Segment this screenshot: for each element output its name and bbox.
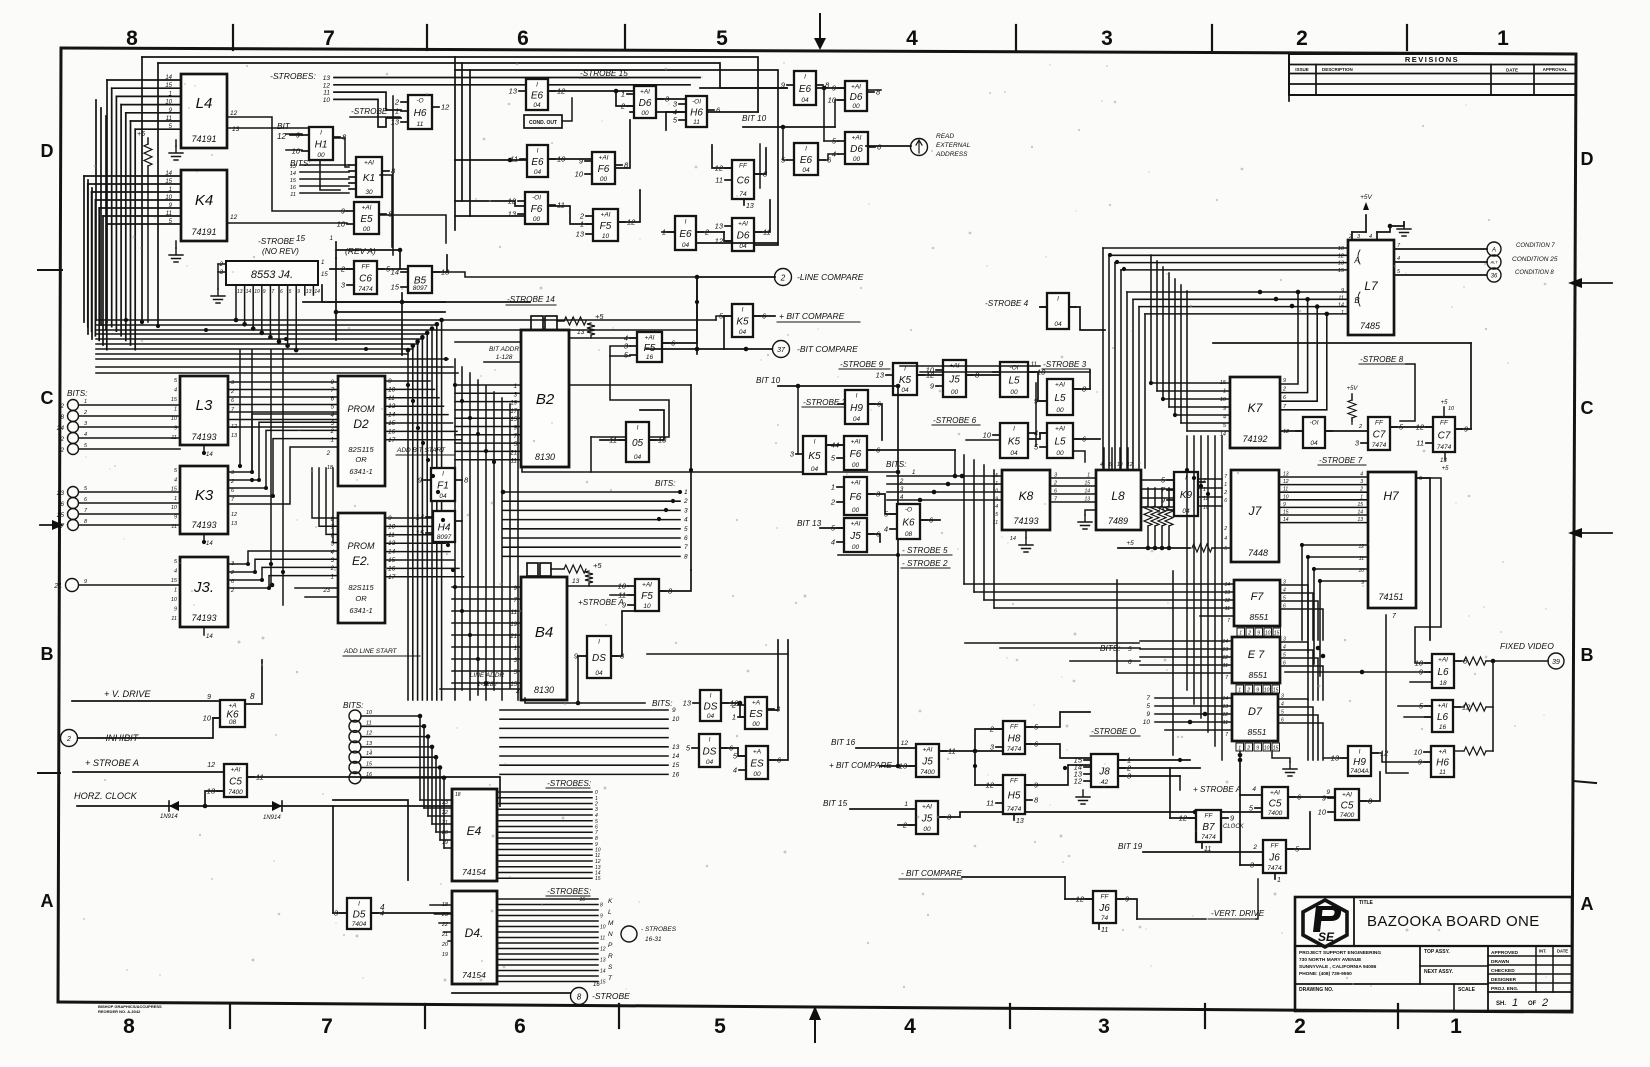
svg-text:ALT: ALT — [1489, 260, 1498, 265]
svg-text:00: 00 — [852, 103, 860, 110]
svg-text:+A: +A — [1438, 749, 1446, 756]
wire line compare to circle — [447, 272, 775, 354]
svg-text:15: 15 — [165, 83, 172, 89]
svg-text:11: 11 — [986, 799, 994, 808]
svg-text:1: 1 — [331, 574, 334, 580]
svg-text:APPROVED: APPROVED — [1491, 950, 1518, 956]
svg-text:I: I — [358, 901, 360, 908]
svg-text:C5: C5 — [1341, 801, 1354, 812]
svg-text:7400: 7400 — [1268, 810, 1283, 817]
wires E6c D6b C6b — [662, 144, 770, 241]
svg-text:REVISIONS: REVISIONS — [1405, 55, 1459, 64]
svg-text:19: 19 — [442, 840, 448, 846]
svg-text:FF: FF — [1010, 778, 1019, 785]
svg-text:-OI: -OI — [532, 195, 541, 202]
ground at K4 pin — [169, 241, 183, 262]
svg-text:K9: K9 — [1180, 490, 1193, 501]
svg-text:+AI: +AI — [922, 804, 932, 811]
svg-text:C7: C7 — [1438, 431, 1451, 442]
svg-text:10: 10 — [254, 289, 260, 295]
svg-text:-STROBE: -STROBE — [351, 107, 388, 116]
svg-text:16-31: 16-31 — [645, 936, 662, 943]
svg-text:11: 11 — [171, 616, 177, 622]
label -STROBE O — [1090, 727, 1165, 736]
svg-text:14: 14 — [1222, 696, 1228, 702]
wire H1 K1 E5 outputs — [333, 96, 446, 255]
svg-text:FF: FF — [1440, 420, 1449, 427]
svg-text:B: B — [41, 644, 54, 664]
svg-text:3: 3 — [1360, 479, 1363, 485]
svg-text:DATE: DATE — [1506, 68, 1518, 73]
wire staircase into K4 — [84, 171, 181, 350]
svg-text:4: 4 — [1223, 414, 1226, 420]
wires E4 strobe outputs — [497, 779, 601, 882]
svg-text:CONDITION 7: CONDITION 7 — [1516, 243, 1555, 249]
svg-text:D6: D6 — [639, 98, 652, 109]
svg-text:1N914: 1N914 — [160, 814, 178, 820]
label -STROBE 9 — [839, 360, 890, 369]
svg-text:7: 7 — [1224, 474, 1227, 480]
wire J5c to H8 — [939, 729, 1003, 753]
svg-text:9: 9 — [174, 515, 177, 521]
svg-text:15: 15 — [416, 529, 425, 538]
label -STROBE 14 — [506, 295, 556, 305]
wire -VERT DRIVE — [1137, 879, 1265, 919]
svg-text:12: 12 — [1222, 655, 1228, 661]
svg-text:2: 2 — [1246, 746, 1250, 752]
svg-text:+AI: +AI — [851, 84, 861, 91]
svg-text:5: 5 — [995, 512, 998, 518]
wire E6a to D6a — [548, 89, 686, 130]
svg-text:14: 14 — [600, 969, 606, 975]
svg-text:39: 39 — [1552, 659, 1560, 666]
IC F7 8551 — [1224, 580, 1280, 626]
svg-text:14: 14 — [1084, 489, 1090, 495]
wire K7 to OI04 — [1280, 430, 1303, 432]
svg-text:L8: L8 — [1111, 489, 1125, 503]
svg-text:D6: D6 — [850, 92, 863, 103]
svg-text:10: 10 — [1220, 397, 1227, 403]
svg-text:00: 00 — [533, 216, 541, 223]
svg-text:3: 3 — [1098, 1015, 1110, 1038]
svg-text:13: 13 — [1357, 517, 1363, 523]
svg-text:C6: C6 — [359, 274, 372, 285]
label ADD LINE START — [343, 648, 420, 656]
svg-text:4: 4 — [733, 766, 737, 775]
svg-text:15: 15 — [296, 234, 306, 243]
svg-text:NEXT ASSY.: NEXT ASSY. — [1424, 969, 1454, 975]
svg-text:N: N — [608, 931, 613, 938]
svg-text:10: 10 — [618, 582, 627, 591]
svg-text:L6: L6 — [1437, 667, 1449, 678]
svg-text:+AI: +AI — [852, 135, 862, 142]
svg-text:20: 20 — [441, 830, 449, 836]
svg-text:OR: OR — [355, 594, 367, 603]
svg-text:K6: K6 — [902, 518, 915, 529]
svg-text:L3: L3 — [196, 397, 213, 414]
label -STROBE 4 — [985, 299, 1029, 308]
svg-text:I: I — [685, 219, 687, 226]
svg-text:13: 13 — [600, 958, 606, 964]
svg-text:ES: ES — [749, 709, 763, 720]
svg-text:ADD LINE START: ADD LINE START — [343, 648, 398, 655]
svg-text:15: 15 — [391, 283, 400, 292]
wires into E2 upper pins — [295, 468, 338, 597]
svg-text:00: 00 — [641, 110, 649, 117]
svg-text:+AI: +AI — [1342, 792, 1352, 799]
svg-text:37: 37 — [777, 347, 786, 354]
svg-text:+5: +5 — [593, 561, 602, 570]
svg-text:I: I — [805, 146, 807, 153]
wire D5 mid connections — [569, 410, 664, 470]
svg-text:15: 15 — [290, 178, 297, 184]
svg-text:00: 00 — [600, 176, 608, 183]
svg-text:14: 14 — [1224, 582, 1230, 588]
svg-text:7: 7 — [1146, 695, 1150, 702]
svg-text:BIT 10: BIT 10 — [742, 114, 767, 123]
svg-text:7400: 7400 — [920, 769, 935, 776]
svg-text:12: 12 — [901, 740, 909, 747]
svg-text:2: 2 — [830, 498, 836, 507]
svg-text:C6: C6 — [737, 176, 750, 187]
svg-text:-STROBE 3: -STROBE 3 — [1043, 360, 1087, 369]
ground at D7 — [1272, 751, 1297, 776]
svg-text:2: 2 — [683, 498, 688, 505]
svg-text:13: 13 — [323, 75, 331, 82]
svg-text:12: 12 — [230, 110, 238, 117]
svg-text:10: 10 — [1143, 719, 1151, 726]
svg-text:B2: B2 — [536, 391, 555, 408]
svg-text:CHECKED: CHECKED — [1491, 968, 1515, 974]
svg-text:+AI: +AI — [601, 212, 611, 219]
svg-text:16: 16 — [1439, 724, 1447, 731]
svg-text:13: 13 — [577, 329, 585, 336]
svg-text:8: 8 — [577, 993, 582, 1002]
svg-text:10: 10 — [600, 925, 606, 931]
svg-text:74191: 74191 — [191, 227, 216, 237]
svg-text:10: 10 — [171, 505, 178, 511]
svg-text:11: 11 — [693, 119, 700, 126]
svg-text:11: 11 — [417, 121, 424, 128]
svg-text:1: 1 — [1360, 494, 1363, 500]
svg-text:D: D — [41, 141, 54, 161]
svg-text:8: 8 — [600, 903, 603, 909]
company address block — [1299, 950, 1381, 977]
junction dots on bundle — [406, 318, 444, 353]
svg-text:8097: 8097 — [413, 285, 428, 292]
svg-text:4: 4 — [84, 432, 87, 438]
resistor L6b output — [1453, 661, 1493, 751]
wires bits into K8 — [887, 474, 1002, 503]
pullup resistor B4 — [527, 561, 628, 586]
wires D4 strobe outputs — [497, 887, 614, 988]
svg-text:E6: E6 — [800, 155, 813, 166]
svg-text:-STROBE 7: -STROBE 7 — [1319, 456, 1363, 465]
svg-text:-STROBE: -STROBE — [592, 991, 630, 1001]
svg-text:L5: L5 — [1054, 393, 1066, 404]
zone numbers bottom — [123, 1015, 1462, 1038]
svg-text:(REV A): (REV A) — [345, 246, 376, 256]
E7 bottom pin boxes — [1236, 685, 1280, 694]
svg-text:36: 36 — [1491, 274, 1498, 280]
wire H5 connections — [975, 751, 1091, 785]
svg-text:11: 11 — [1439, 769, 1446, 776]
junction dots batch — [140, 253, 1322, 770]
svg-text:4: 4 — [1369, 234, 1372, 240]
IC L7 7485 — [1338, 234, 1401, 335]
svg-text:7: 7 — [1227, 618, 1230, 624]
svg-text:13: 13 — [1338, 261, 1345, 267]
wire C6 to B5 and right — [322, 248, 447, 355]
svg-text:I: I — [598, 639, 600, 646]
svg-text:2: 2 — [230, 588, 234, 594]
wires L7 outputs to condition circles — [1394, 249, 1487, 275]
svg-text:C5: C5 — [1269, 799, 1282, 810]
label -STROBE 8 right — [1359, 355, 1406, 364]
svg-text:I: I — [804, 74, 806, 81]
svg-text:J5: J5 — [921, 814, 933, 825]
wire BIT 13 — [797, 519, 844, 528]
svg-text:11: 11 — [1223, 720, 1228, 726]
svg-text:15: 15 — [1273, 688, 1279, 694]
svg-text:16: 16 — [593, 982, 600, 988]
svg-text:-LINE COMPARE: -LINE COMPARE — [797, 272, 864, 282]
svg-text:7485: 7485 — [1360, 321, 1381, 331]
svg-text:BITS:: BITS: — [343, 701, 363, 710]
svg-text:+AI: +AI — [851, 480, 861, 487]
wire BIT 10 top — [742, 100, 911, 160]
svg-text:1: 1 — [1450, 1015, 1462, 1038]
svg-text:11: 11 — [1416, 439, 1424, 448]
svg-text:I: I — [637, 425, 639, 432]
svg-text:I: I — [442, 471, 444, 478]
svg-text:TOP ASSY.: TOP ASSY. — [1424, 949, 1450, 955]
svg-text:4: 4 — [174, 388, 177, 394]
svg-text:-OI: -OI — [1309, 420, 1318, 427]
svg-text:11: 11 — [557, 201, 565, 210]
svg-text:-STROBE 15: -STROBE 15 — [580, 69, 628, 78]
svg-text:8551: 8551 — [1250, 612, 1269, 622]
svg-text:C: C — [41, 388, 54, 408]
svg-text:7474: 7474 — [1267, 865, 1282, 872]
wire long line strobe right — [303, 302, 530, 312]
svg-text:74191: 74191 — [191, 134, 216, 144]
svg-text:C7: C7 — [1373, 430, 1386, 441]
svg-text:19: 19 — [442, 952, 448, 958]
svg-text:+A: +A — [752, 700, 760, 707]
svg-text:TITLE: TITLE — [1359, 900, 1374, 906]
svg-text:04: 04 — [533, 102, 541, 109]
svg-text:20: 20 — [441, 942, 449, 948]
svg-text:15: 15 — [600, 980, 606, 986]
svg-text:7: 7 — [684, 544, 688, 551]
svg-text:A: A — [41, 891, 54, 911]
svg-text:1: 1 — [1239, 631, 1242, 637]
svg-text:2: 2 — [83, 410, 87, 416]
svg-text:04: 04 — [853, 416, 861, 423]
svg-text:+AI: +AI — [923, 747, 933, 754]
svg-text:BIT 19: BIT 19 — [1118, 842, 1143, 851]
svg-text:25: 25 — [56, 512, 65, 519]
svg-text:1: 1 — [174, 496, 177, 502]
svg-text:10: 10 — [575, 170, 584, 179]
svg-text:2: 2 — [1223, 490, 1227, 496]
svg-text:15: 15 — [171, 578, 178, 584]
svg-text:L5: L5 — [1054, 437, 1066, 448]
wire bits bus 1-8 — [501, 479, 688, 560]
svg-text:E6: E6 — [799, 84, 812, 95]
svg-text:-STROBES:: -STROBES: — [547, 779, 591, 788]
svg-text:A: A — [1491, 248, 1496, 254]
svg-text:10: 10 — [1414, 748, 1423, 757]
svg-text:9: 9 — [1256, 688, 1259, 694]
IC E4 74154 — [441, 789, 497, 881]
svg-text:2: 2 — [989, 725, 995, 734]
svg-text:15: 15 — [165, 179, 172, 185]
svg-text:04: 04 — [439, 493, 447, 500]
diode 1N914 left — [160, 801, 179, 820]
svg-text:8130: 8130 — [535, 452, 555, 462]
svg-text:+AI: +AI — [1438, 703, 1448, 710]
svg-text:1: 1 — [831, 483, 835, 492]
svg-text:13: 13 — [672, 744, 680, 751]
svg-text:D6: D6 — [850, 144, 863, 155]
svg-text:7400: 7400 — [1340, 812, 1355, 819]
svg-text:00: 00 — [852, 462, 860, 469]
circle strobe 8 bottom — [452, 988, 630, 1005]
svg-text:1: 1 — [1512, 997, 1518, 1009]
svg-text:5: 5 — [289, 289, 292, 295]
IC L3 74193 — [171, 376, 238, 458]
svg-text:+5V: +5V — [1360, 194, 1372, 201]
svg-text:I: I — [1013, 426, 1015, 433]
IC J7 7448 — [1223, 470, 1279, 562]
IC J4 8553 — [218, 260, 328, 289]
svg-text:READ: READ — [936, 133, 954, 140]
svg-text:9: 9 — [207, 694, 211, 701]
svg-text:11: 11 — [1031, 362, 1037, 368]
wires into F7 left — [964, 455, 1234, 643]
svg-text:4: 4 — [1224, 536, 1227, 542]
svg-text:2: 2 — [1252, 844, 1257, 851]
svg-text:5: 5 — [1281, 710, 1284, 716]
svg-text:5: 5 — [1224, 546, 1227, 552]
svg-text:7: 7 — [321, 1015, 333, 1038]
wire staircase into L4 — [107, 75, 181, 350]
svg-text:3: 3 — [1283, 637, 1286, 643]
IC B2 8130 — [509, 330, 569, 467]
svg-text:DS: DS — [704, 702, 718, 713]
circle 2 line compare — [775, 269, 864, 286]
svg-text:BITS:: BITS: — [652, 699, 672, 708]
svg-text:14: 14 — [1338, 303, 1344, 309]
svg-text:+AI: +AI — [1438, 657, 1448, 664]
svg-text:6: 6 — [280, 289, 283, 295]
svg-text:2: 2 — [1282, 387, 1286, 393]
svg-text:7: 7 — [1225, 675, 1228, 681]
svg-text:15: 15 — [1338, 268, 1345, 274]
svg-text:13: 13 — [1016, 818, 1024, 825]
wires into E7 left — [1100, 571, 1232, 755]
svg-text:13: 13 — [1084, 497, 1090, 503]
wire K4 pin12 to E5 — [227, 214, 347, 223]
svg-text:9: 9 — [297, 289, 300, 295]
diode 1N914 right — [263, 801, 282, 821]
svg-text:FF: FF — [739, 163, 748, 170]
wires K8 to L8 — [1050, 473, 1096, 503]
wire BIT 19 — [1118, 842, 1263, 852]
label +STROBE A mid — [578, 595, 635, 607]
svg-text:13: 13 — [508, 210, 517, 219]
svg-text:4: 4 — [174, 477, 177, 483]
svg-text:15: 15 — [672, 762, 680, 769]
svg-text:14: 14 — [290, 171, 296, 177]
svg-text:11: 11 — [1225, 606, 1230, 612]
ground at L4 pin — [169, 140, 183, 160]
svg-text:13: 13 — [1222, 704, 1228, 710]
svg-text:F6: F6 — [850, 449, 862, 460]
svg-text:+A: +A — [753, 749, 761, 756]
svg-text:13: 13 — [683, 699, 692, 708]
svg-text:K8: K8 — [1019, 489, 1034, 503]
wire H7 output right — [1416, 478, 1436, 640]
wire F5 D5 links — [525, 385, 788, 705]
svg-text:D5: D5 — [353, 910, 366, 921]
svg-text:7474: 7474 — [1437, 444, 1452, 451]
svg-text:2: 2 — [1294, 1015, 1306, 1038]
svg-text:15: 15 — [1357, 502, 1363, 508]
svg-text:14: 14 — [1357, 510, 1363, 516]
svg-text:I: I — [742, 307, 744, 314]
svg-text:12: 12 — [1074, 777, 1083, 786]
svg-text:J7: J7 — [1248, 504, 1263, 518]
svg-text:REORDER NO. A-3042: REORDER NO. A-3042 — [98, 1009, 141, 1014]
svg-text:10: 10 — [926, 366, 935, 375]
svg-text:13: 13 — [1224, 590, 1230, 596]
wires H9 H6 resistor — [1324, 747, 1493, 762]
svg-text:L5: L5 — [1008, 376, 1020, 387]
svg-text:2: 2 — [1348, 234, 1352, 240]
svg-text:BIT: BIT — [277, 122, 291, 131]
wires J3 outputs staircase — [228, 551, 338, 590]
svg-text:4: 4 — [1281, 702, 1284, 708]
wire strobe4 to L7 — [1040, 307, 1105, 330]
wire C5 out and loop — [247, 777, 500, 913]
svg-text:D6: D6 — [737, 231, 750, 242]
revisions table — [1289, 54, 1576, 101]
svg-text:+STROBE A: +STROBE A — [578, 598, 624, 607]
svg-text:11: 11 — [1223, 663, 1228, 669]
svg-text:9: 9 — [174, 426, 177, 432]
svg-text:DRAWING NO.: DRAWING NO. — [1299, 987, 1334, 993]
svg-text:+AI: +AI — [231, 767, 241, 774]
svg-text:K: K — [608, 898, 613, 905]
svg-text:DESCRIPTION: DESCRIPTION — [1322, 67, 1353, 72]
svg-text:4: 4 — [995, 504, 998, 510]
resistor L6a output — [1454, 657, 1548, 665]
svg-text:4: 4 — [1100, 462, 1103, 468]
label BIT ADDR 1-128 — [455, 342, 521, 362]
svg-text:15: 15 — [1084, 481, 1090, 487]
svg-text:82S115: 82S115 — [348, 583, 374, 592]
svg-text:6: 6 — [1283, 604, 1286, 610]
wire horizontals upper right half — [900, 366, 1128, 470]
svg-text:K7: K7 — [1248, 401, 1264, 415]
wire bus into L7 left — [1103, 248, 1348, 468]
svg-text:2: 2 — [66, 736, 71, 743]
svg-text:K5: K5 — [1008, 437, 1021, 448]
svg-text:08: 08 — [905, 531, 913, 538]
